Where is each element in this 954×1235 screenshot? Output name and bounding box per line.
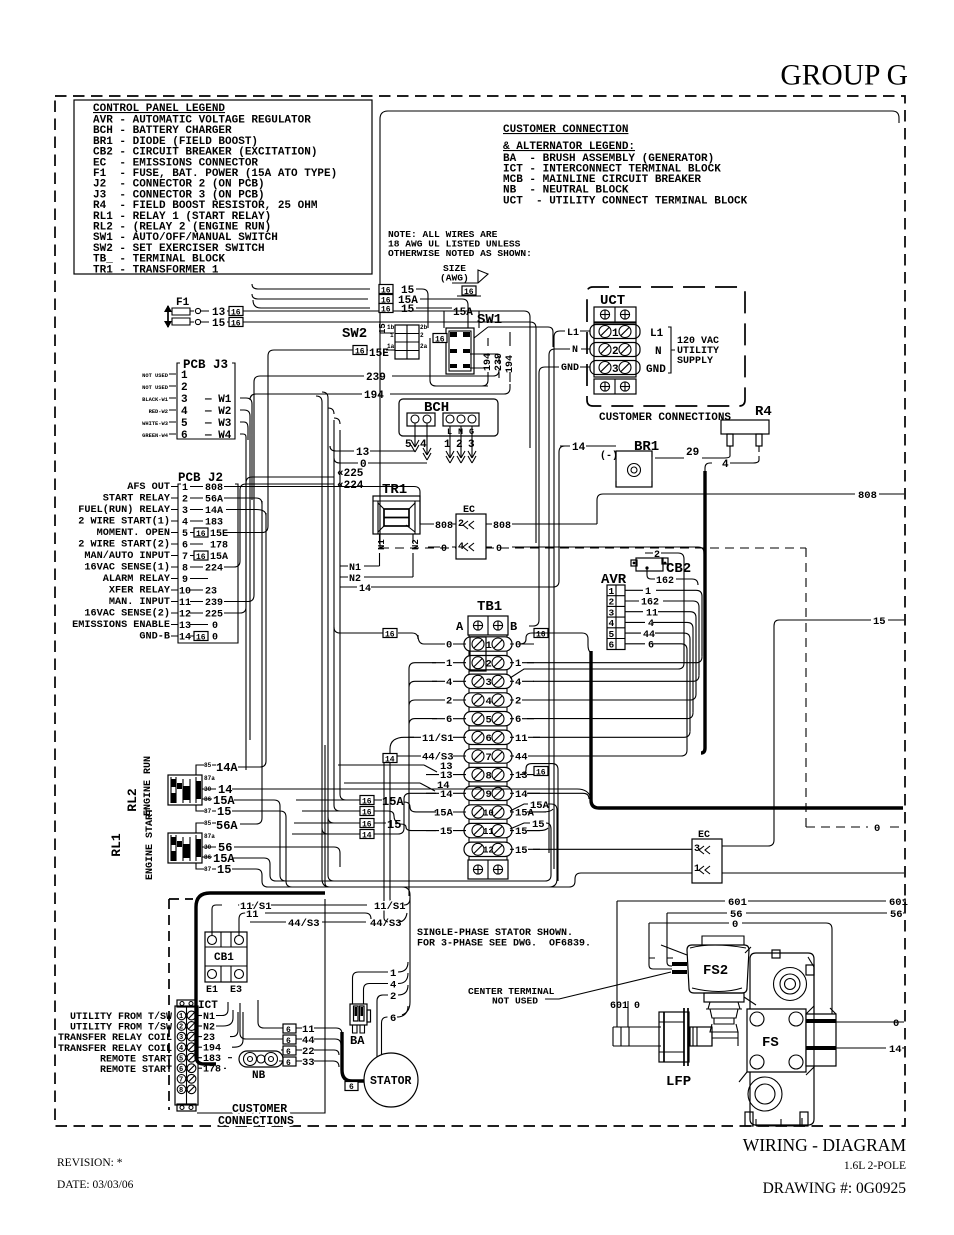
svg-text:14: 14	[359, 584, 371, 595]
svg-text:44: 44	[515, 752, 528, 764]
svg-text:23: 23	[203, 1033, 215, 1044]
svg-text:194: 194	[483, 353, 494, 371]
svg-text:13: 13	[440, 761, 453, 773]
svg-text:N1: N1	[349, 563, 361, 574]
svg-text:6: 6	[286, 1048, 291, 1057]
svg-text:1: 1	[446, 658, 452, 670]
svg-text:3: 3	[486, 677, 492, 689]
svg-text:2: 2	[654, 550, 660, 561]
svg-text:2b: 2b	[420, 324, 428, 331]
svg-text:0: 0	[496, 544, 502, 555]
svg-text:ICT: ICT	[198, 1000, 218, 1012]
svg-text:4: 4	[609, 618, 615, 629]
svg-text:2: 2	[609, 597, 615, 608]
svg-text:178: 178	[210, 541, 228, 552]
svg-text:AFS OUT: AFS OUT	[127, 482, 170, 493]
svg-text:11: 11	[246, 909, 259, 921]
svg-text:15: 15	[440, 826, 453, 838]
svg-text:5: 5	[609, 629, 615, 640]
svg-text:— W3: — W3	[204, 418, 232, 430]
svg-text:6: 6	[349, 1083, 354, 1092]
svg-text:44: 44	[643, 630, 655, 641]
svg-text:F1: F1	[176, 297, 190, 309]
svg-text:6: 6	[286, 1059, 291, 1068]
svg-text:15E: 15E	[369, 348, 389, 360]
svg-text:87a: 87a	[204, 833, 215, 840]
svg-text:GND: GND	[561, 363, 579, 374]
svg-text:E1: E1	[206, 985, 218, 996]
svg-text:TR1 - TRANSFORMER 1: TR1 - TRANSFORMER 1	[93, 264, 219, 276]
svg-text:183: 183	[205, 518, 223, 529]
svg-text:UCT - UTILITY CONNECT TERMINA: UCT - UTILITY CONNECT TERMINAL BLOCK	[503, 196, 748, 208]
svg-text:15: 15	[515, 845, 528, 857]
svg-text:87a: 87a	[204, 775, 215, 782]
svg-text:2: 2	[390, 991, 396, 1003]
svg-text:4: 4	[648, 619, 654, 630]
svg-text:15: 15	[217, 805, 231, 819]
svg-text:BR1: BR1	[634, 439, 659, 455]
svg-text:— W2: — W2	[204, 406, 231, 418]
svg-text:FS: FS	[762, 1035, 779, 1051]
svg-text:1: 1	[181, 370, 188, 382]
svg-text:2: 2	[179, 1024, 183, 1032]
svg-text:BLACK-W1: BLACK-W1	[142, 397, 168, 403]
svg-text:5: 5	[182, 529, 188, 540]
svg-text:808: 808	[435, 521, 453, 532]
svg-text:4: 4	[182, 518, 188, 529]
svg-text:LFP: LFP	[666, 1074, 691, 1090]
svg-text:2: 2	[182, 495, 188, 506]
svg-text:44/S3: 44/S3	[370, 918, 402, 930]
svg-text:808: 808	[858, 490, 877, 502]
svg-text:2: 2	[420, 332, 424, 339]
svg-text:4: 4	[446, 677, 452, 689]
svg-text:15: 15	[873, 616, 886, 628]
svg-text:87: 87	[204, 808, 212, 815]
svg-text:2: 2	[456, 439, 463, 451]
svg-text:15: 15	[515, 826, 528, 838]
svg-text:7: 7	[179, 1076, 183, 1084]
svg-text:(AWG): (AWG)	[440, 273, 469, 284]
svg-text:DRAWING #: 0G0925: DRAWING #: 0G0925	[763, 1180, 907, 1197]
svg-text:2: 2	[446, 696, 452, 708]
svg-text:RED-W2: RED-W2	[149, 409, 168, 415]
svg-text:2: 2	[612, 346, 619, 358]
svg-text:CUSTOMER CONNECTION: CUSTOMER CONNECTION	[503, 124, 628, 136]
svg-text:4: 4	[390, 980, 396, 992]
svg-text:XFER RELAY: XFER RELAY	[109, 586, 171, 597]
svg-text:1: 1	[645, 587, 651, 598]
svg-text:3: 3	[182, 506, 188, 517]
svg-text:REVISION: *: REVISION: *	[57, 1157, 123, 1169]
svg-text:225: 225	[205, 610, 223, 621]
svg-text:33: 33	[302, 1057, 315, 1069]
svg-text:MAN. INPUT: MAN. INPUT	[109, 597, 170, 608]
svg-text:3: 3	[609, 607, 615, 618]
svg-text:14: 14	[889, 1044, 902, 1056]
svg-text:15: 15	[401, 304, 415, 316]
svg-text:15: 15	[217, 863, 231, 877]
svg-text:3: 3	[612, 364, 619, 376]
svg-text:224: 224	[205, 564, 223, 575]
svg-text:14A: 14A	[216, 761, 238, 775]
svg-text:— W1: — W1	[204, 394, 232, 406]
svg-text:NB: NB	[252, 1070, 266, 1082]
svg-text:0: 0	[446, 640, 452, 652]
svg-text:29: 29	[686, 447, 699, 459]
svg-text:WIRING - DIAGRAM: WIRING - DIAGRAM	[743, 1135, 907, 1155]
svg-text:NOT USED: NOT USED	[492, 996, 538, 1007]
svg-text:44/S3: 44/S3	[288, 918, 320, 930]
svg-text:14A: 14A	[205, 506, 223, 517]
svg-text:194: 194	[203, 1044, 221, 1055]
svg-text:REMOTE START: REMOTE START	[100, 1065, 172, 1076]
svg-text:3: 3	[181, 394, 188, 406]
svg-text:GND: GND	[646, 364, 666, 376]
svg-text:CB1: CB1	[214, 952, 234, 964]
svg-text:SW1: SW1	[477, 312, 502, 328]
svg-text:601: 601	[728, 897, 747, 909]
svg-text:2 WIRE START(2): 2 WIRE START(2)	[78, 539, 170, 551]
svg-text:N1: N1	[377, 539, 387, 550]
svg-text:6: 6	[179, 1066, 183, 1074]
svg-text:183: 183	[203, 1054, 221, 1065]
svg-text:2: 2	[181, 382, 188, 394]
svg-text:12: 12	[483, 846, 494, 856]
svg-text:15A: 15A	[210, 552, 228, 563]
svg-text:8: 8	[486, 770, 492, 782]
svg-text:(-): (-)	[600, 450, 618, 462]
svg-text:12: 12	[179, 610, 191, 621]
svg-text:14: 14	[179, 633, 191, 644]
svg-text:CONNECTIONS: CONNECTIONS	[218, 1115, 294, 1128]
svg-text:6: 6	[286, 1037, 291, 1046]
svg-text:0: 0	[212, 633, 218, 644]
svg-text:15: 15	[532, 819, 545, 831]
svg-text:DATE: 03/03/06: DATE: 03/03/06	[57, 1179, 134, 1191]
svg-text:A: A	[456, 620, 464, 634]
svg-text:GREEN-W4: GREEN-W4	[142, 433, 169, 439]
svg-text:11: 11	[483, 827, 494, 837]
svg-text:MAN/AUTO INPUT: MAN/AUTO INPUT	[84, 550, 170, 562]
svg-text:8: 8	[179, 1087, 183, 1095]
svg-text:85: 85	[204, 762, 212, 769]
svg-text:23: 23	[205, 587, 217, 598]
svg-text:NOT USED: NOT USED	[142, 373, 169, 379]
svg-text:CUSTOMER CONNECTIONS: CUSTOMER CONNECTIONS	[599, 412, 731, 424]
svg-text:15A: 15A	[434, 808, 454, 820]
svg-text:SUPPLY: SUPPLY	[677, 356, 713, 367]
svg-text:STATOR: STATOR	[370, 1075, 412, 1088]
svg-text:1: 1	[612, 328, 619, 340]
svg-text:808: 808	[205, 483, 223, 494]
svg-text:CONTROL PANEL LEGEND: CONTROL PANEL LEGEND	[93, 103, 225, 115]
svg-text:ENGINE RUN: ENGINE RUN	[143, 756, 154, 816]
svg-text:1: 1	[390, 968, 396, 980]
svg-text:CB2: CB2	[666, 561, 691, 577]
svg-text:& ALTERNATOR LEGEND:: & ALTERNATOR LEGEND:	[503, 141, 635, 153]
svg-text:601: 601	[889, 897, 908, 909]
svg-text:56A: 56A	[216, 819, 238, 833]
svg-text:0: 0	[874, 823, 880, 835]
svg-text:85: 85	[204, 820, 212, 827]
svg-text:0: 0	[893, 1018, 899, 1030]
svg-text:L1: L1	[567, 328, 579, 339]
svg-text:1: 1	[182, 483, 188, 494]
svg-text:GND-B: GND-B	[139, 632, 170, 643]
svg-text:56A: 56A	[205, 495, 223, 506]
svg-text:OTHERWISE NOTED AS SHOWN:: OTHERWISE NOTED AS SHOWN:	[388, 248, 532, 259]
svg-text:14: 14	[572, 442, 586, 454]
svg-text:0: 0	[212, 621, 218, 632]
svg-text:10: 10	[179, 587, 191, 598]
svg-text:14: 14	[515, 789, 528, 801]
svg-text:4: 4	[486, 696, 492, 708]
svg-text:601 0: 601 0	[610, 1001, 640, 1012]
svg-text:FOR 3-PHASE SEE DWG. OF6839.: FOR 3-PHASE SEE DWG. OF6839.	[417, 939, 591, 950]
svg-text:RL1: RL1	[109, 833, 124, 857]
svg-text:0: 0	[441, 544, 447, 555]
svg-text:1.6L 2-POLE: 1.6L 2-POLE	[844, 1160, 906, 1172]
svg-text:808: 808	[493, 521, 511, 532]
svg-text:R4: R4	[755, 404, 772, 420]
svg-text:N1: N1	[203, 1012, 215, 1023]
svg-text:87: 87	[204, 866, 212, 873]
svg-text:162: 162	[656, 576, 674, 587]
svg-text:4: 4	[722, 459, 729, 471]
svg-text:4: 4	[515, 677, 521, 689]
svg-text:N2: N2	[203, 1023, 215, 1034]
svg-text:5: 5	[179, 1055, 183, 1063]
svg-text:11: 11	[179, 598, 191, 609]
svg-text:1: 1	[515, 658, 521, 670]
svg-text:«225: «225	[337, 468, 364, 480]
svg-text:MOMENT. OPEN: MOMENT. OPEN	[97, 528, 170, 539]
svg-text:BA: BA	[350, 1034, 365, 1048]
svg-text:FS2: FS2	[703, 963, 728, 979]
svg-text:10: 10	[483, 808, 494, 818]
svg-text:START RELAY: START RELAY	[103, 494, 171, 505]
svg-text:ALARM RELAY: ALARM RELAY	[103, 574, 171, 585]
svg-text:ENGINE START: ENGINE START	[145, 808, 156, 880]
svg-text:N: N	[655, 346, 662, 358]
svg-text:GROUP G: GROUP G	[780, 60, 908, 92]
svg-text:6: 6	[446, 714, 452, 726]
svg-text:9: 9	[182, 575, 188, 586]
svg-text:5: 5	[486, 715, 492, 727]
svg-text:9: 9	[486, 789, 492, 801]
svg-text:1: 1	[179, 1013, 183, 1021]
svg-text:6: 6	[609, 640, 615, 651]
svg-text:13: 13	[356, 447, 370, 459]
svg-text:EMISSIONS ENABLE: EMISSIONS ENABLE	[72, 620, 170, 631]
svg-text:8: 8	[182, 564, 188, 575]
svg-text:6: 6	[182, 541, 188, 552]
svg-text:FUEL(RUN) RELAY: FUEL(RUN) RELAY	[78, 504, 171, 516]
svg-text:2: 2	[515, 696, 521, 708]
svg-text:15A: 15A	[453, 307, 473, 319]
svg-text:15: 15	[212, 318, 226, 330]
svg-text:239: 239	[366, 372, 386, 384]
svg-text:7: 7	[182, 552, 188, 563]
svg-text:2 WIRE START(1): 2 WIRE START(1)	[78, 516, 170, 528]
svg-text:— W4: — W4	[204, 430, 232, 442]
svg-text:4: 4	[179, 1045, 183, 1053]
svg-text:11: 11	[515, 733, 528, 745]
svg-text:15A: 15A	[530, 800, 550, 812]
svg-text:5: 5	[181, 418, 188, 430]
svg-text:B: B	[510, 620, 517, 634]
svg-text:TRANSFER RELAY COIL: TRANSFER RELAY COIL	[58, 1033, 172, 1044]
svg-text:TRANSFER RELAY COIL: TRANSFER RELAY COIL	[58, 1044, 172, 1055]
svg-text:16VAC SENSE(1): 16VAC SENSE(1)	[84, 562, 170, 574]
svg-text:16VAC SENSE(2): 16VAC SENSE(2)	[84, 608, 170, 620]
svg-text:194: 194	[505, 355, 516, 373]
svg-text:6: 6	[286, 1026, 291, 1035]
svg-text:4: 4	[181, 406, 188, 418]
svg-text:15A: 15A	[382, 795, 404, 809]
svg-text:56: 56	[890, 909, 903, 921]
svg-text:11: 11	[646, 608, 658, 619]
svg-text:14: 14	[437, 780, 450, 792]
svg-text:UTILITY FROM T/SW: UTILITY FROM T/SW	[70, 1022, 172, 1034]
svg-text:0: 0	[515, 640, 521, 652]
svg-text:194: 194	[364, 390, 384, 402]
svg-text:6: 6	[648, 641, 654, 652]
svg-text:L1: L1	[650, 328, 664, 340]
svg-text:6: 6	[390, 1013, 396, 1025]
svg-text:13: 13	[179, 621, 191, 632]
svg-text:178: 178	[203, 1065, 221, 1076]
svg-text:E3: E3	[230, 985, 242, 996]
svg-text:SW2: SW2	[342, 326, 367, 342]
svg-text:0: 0	[732, 919, 738, 931]
svg-text:3: 3	[179, 1034, 183, 1042]
svg-text:11/S1: 11/S1	[374, 901, 406, 913]
svg-text:PCB J3: PCB J3	[183, 358, 228, 372]
svg-text:6: 6	[181, 430, 188, 442]
svg-text:TB1: TB1	[477, 599, 502, 615]
svg-text:6: 6	[515, 714, 521, 726]
svg-text:BCH: BCH	[424, 400, 449, 416]
svg-text:WHITE-W3: WHITE-W3	[142, 421, 168, 427]
svg-text:11/S1: 11/S1	[422, 733, 454, 745]
svg-text:NOT USED: NOT USED	[142, 385, 169, 391]
svg-text:2a: 2a	[420, 343, 428, 350]
svg-text:1b: 1b	[387, 324, 395, 331]
svg-text:6: 6	[486, 733, 492, 745]
svg-text:15: 15	[387, 818, 401, 832]
svg-text:SINGLE-PHASE STATOR SHOWN.: SINGLE-PHASE STATOR SHOWN.	[417, 928, 573, 939]
svg-text:7: 7	[486, 752, 492, 764]
svg-text:UTILITY FROM T/SW: UTILITY FROM T/SW	[70, 1011, 172, 1023]
svg-text:15E: 15E	[210, 529, 228, 540]
svg-text:162: 162	[641, 598, 659, 609]
svg-text:RL2: RL2	[125, 788, 140, 812]
svg-text:N: N	[572, 345, 578, 356]
svg-text:239: 239	[205, 598, 223, 609]
svg-text:1: 1	[609, 586, 615, 597]
svg-text:REMOTE START: REMOTE START	[100, 1054, 172, 1065]
